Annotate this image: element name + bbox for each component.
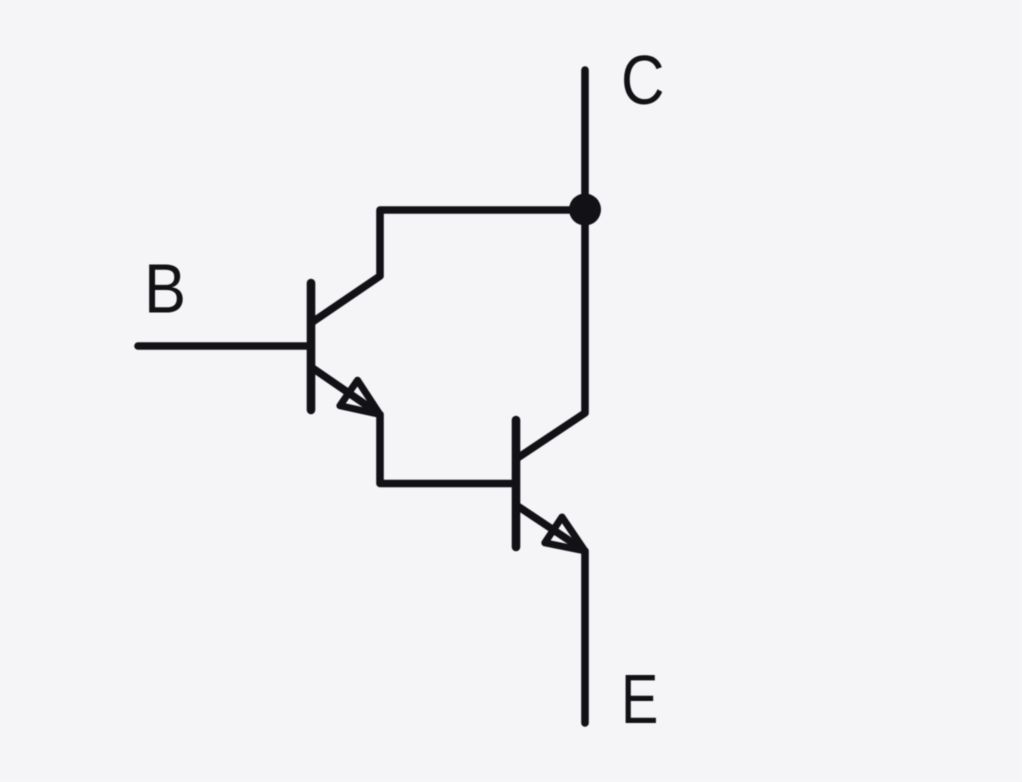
svg-text:C: C xyxy=(621,41,664,119)
svg-text:B: B xyxy=(144,250,186,328)
svg-text:E: E xyxy=(621,661,658,738)
